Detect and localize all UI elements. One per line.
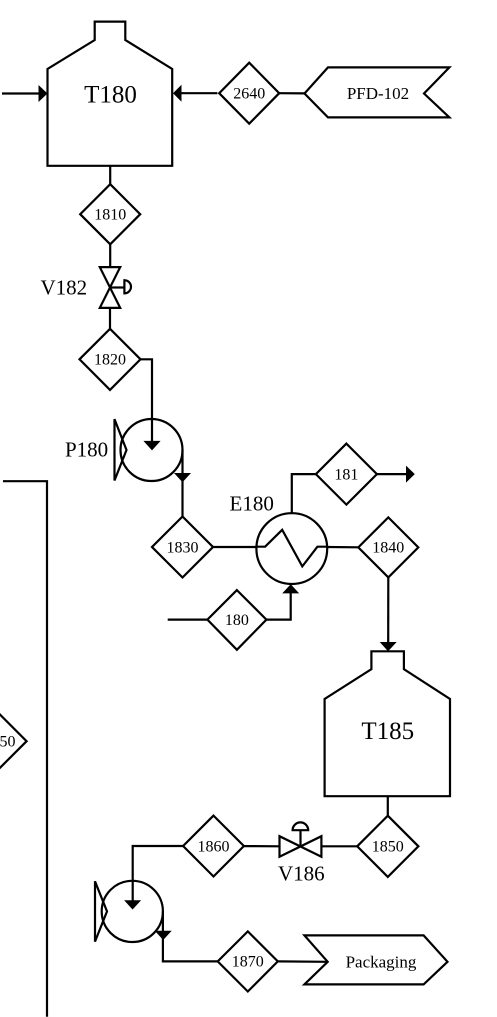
- valve V186: [280, 822, 322, 856]
- tank T180: [48, 22, 173, 166]
- wire P180 outlet down to 1830 with mid arrow: [174, 450, 191, 516]
- svg-text:E180: E180: [230, 492, 274, 516]
- svg-text:T185: T185: [361, 718, 414, 745]
- wire 1850 to valve V186: [322, 845, 358, 847]
- wire 181 outlet arrow right: [377, 466, 415, 483]
- heat exchanger E180: [256, 513, 327, 584]
- stream diamond 180: [207, 590, 266, 650]
- stream diamond 1840: [358, 517, 418, 577]
- svg-text:Packaging: Packaging: [346, 952, 417, 971]
- off-page connector Packaging: [304, 935, 447, 984]
- wire pump outlet down and right to 1870 with mid arrow: [155, 911, 218, 961]
- wire V186 to 1860: [244, 845, 280, 847]
- svg-text:1820: 1820: [94, 352, 126, 369]
- svg-text:1860: 1860: [198, 838, 230, 855]
- stream diamond 1810: [80, 184, 140, 244]
- stream diamond 50 (clipped at left edge): [0, 711, 27, 771]
- svg-text:P180: P180: [65, 438, 108, 462]
- svg-text:V182: V182: [41, 276, 88, 300]
- svg-text:181: 181: [334, 466, 358, 483]
- wire 2640 to T180 with arrow: [173, 85, 217, 102]
- stream diamond 1860: [183, 816, 244, 877]
- wire 1870 to Packaging: [278, 960, 328, 963]
- wire 180 to E180 bottom with arrow up: [266, 584, 299, 619]
- stream diamond 1830: [152, 517, 213, 578]
- wire 1840 down to T185 with arrow: [380, 577, 397, 651]
- pump P180: [115, 419, 183, 481]
- svg-text:1850: 1850: [372, 839, 404, 856]
- wire 2640 to PFD-102: [279, 92, 304, 94]
- pump P (bottom): [95, 881, 163, 942]
- stream diamond 1870: [218, 931, 278, 991]
- stream diamond 2640: [219, 63, 279, 124]
- stream diamond 1820: [80, 329, 141, 390]
- svg-text:PFD-102: PFD-102: [347, 84, 409, 103]
- wire 1810 to valve V182: [109, 244, 111, 267]
- svg-text:1870: 1870: [232, 954, 264, 971]
- wire T185 bottom to 1850: [387, 796, 389, 816]
- svg-text:50: 50: [0, 734, 16, 751]
- svg-text:1810: 1810: [94, 207, 126, 224]
- wire frame corner at left edge: [3, 481, 47, 1017]
- svg-text:2640: 2640: [233, 86, 265, 103]
- wire 1820 to pump P180 with arrow into pump center: [141, 359, 161, 450]
- stub wire left of diamond 180: [168, 618, 208, 620]
- valve V182: [100, 267, 131, 308]
- wire E180 to 1840: [327, 546, 358, 548]
- svg-text:V186: V186: [278, 862, 325, 886]
- stream diamond 1850: [357, 816, 418, 877]
- wire E180 top to 181: [292, 474, 316, 513]
- svg-text:1840: 1840: [372, 540, 404, 557]
- svg-text:T180: T180: [84, 81, 137, 108]
- wire 1830 to E180: [213, 546, 257, 548]
- wire inlet into T180 from left edge: [2, 85, 48, 102]
- wire T180 bottom to 1810: [109, 166, 111, 185]
- off-page connector PFD-102: [305, 67, 450, 117]
- svg-text:180: 180: [225, 612, 249, 629]
- tank T185: [325, 651, 450, 796]
- stream diamond 181: [316, 444, 377, 505]
- wire V182 to 1820: [109, 308, 111, 329]
- wire 1860 to bottom pump with arrow into pump center: [124, 846, 183, 910]
- svg-text:1830: 1830: [167, 539, 199, 556]
